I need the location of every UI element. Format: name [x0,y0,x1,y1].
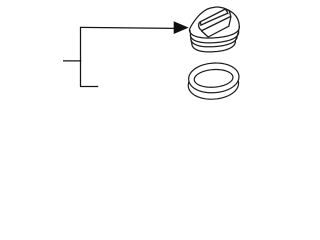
cap left side wall [190,30,192,44]
cap right side wall [235,27,239,41]
cap bottom band body [192,41,236,52]
cap middle band lower arc [191,36,237,47]
wing grip left end crease [199,22,202,26]
cap rim body [189,19,239,38]
gasket outer top face [189,63,239,93]
cap rim lower band body [190,32,238,43]
gasket inner hole [194,70,233,88]
gasket (seal ring) [188,63,239,99]
wire: leader vertical segment [80,27,82,87]
wing grip silhouette [199,9,231,31]
groove line where grip meets dome [202,17,231,37]
wire: leader horizontal top segment [80,27,174,28]
arrowhead pointing to cap [174,22,188,34]
wire: left tick segment [63,60,81,62]
wire: bottom short segment [80,86,98,88]
gasket bottom body [188,69,238,99]
cap bottom band lower arc [192,41,236,52]
cap rim lower band arc [190,32,238,43]
cap middle band body [191,36,237,47]
cap dome silhouette arc [189,7,239,30]
oil filler cap [189,7,239,52]
wing grip ridge line [201,13,228,25]
wing grip right end crease [225,9,228,13]
cap rim lower arc [189,27,239,38]
cap dome body fill [189,7,239,30]
